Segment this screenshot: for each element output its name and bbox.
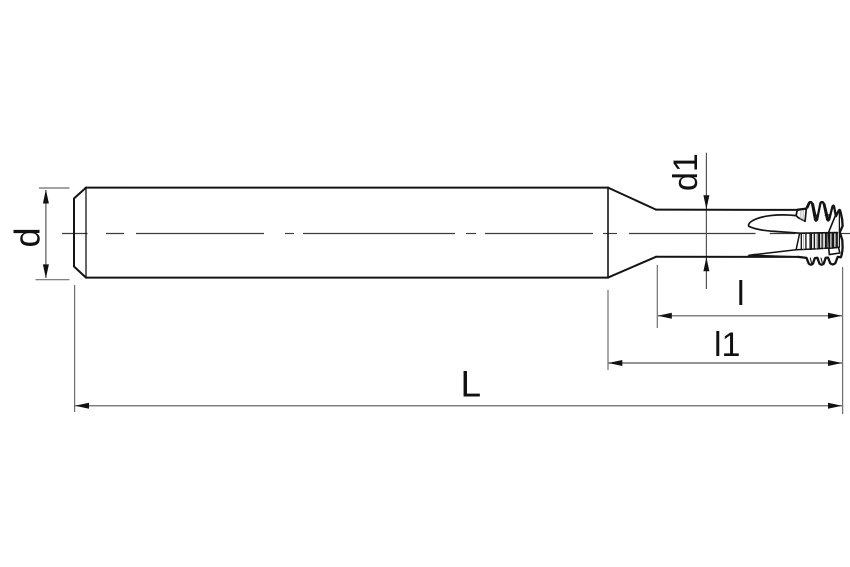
svg-text:d1: d1 — [667, 153, 705, 191]
svg-text:L: L — [461, 364, 482, 405]
svg-text:d: d — [7, 227, 48, 247]
svg-text:l1: l1 — [714, 326, 740, 364]
svg-text:l: l — [737, 275, 745, 313]
